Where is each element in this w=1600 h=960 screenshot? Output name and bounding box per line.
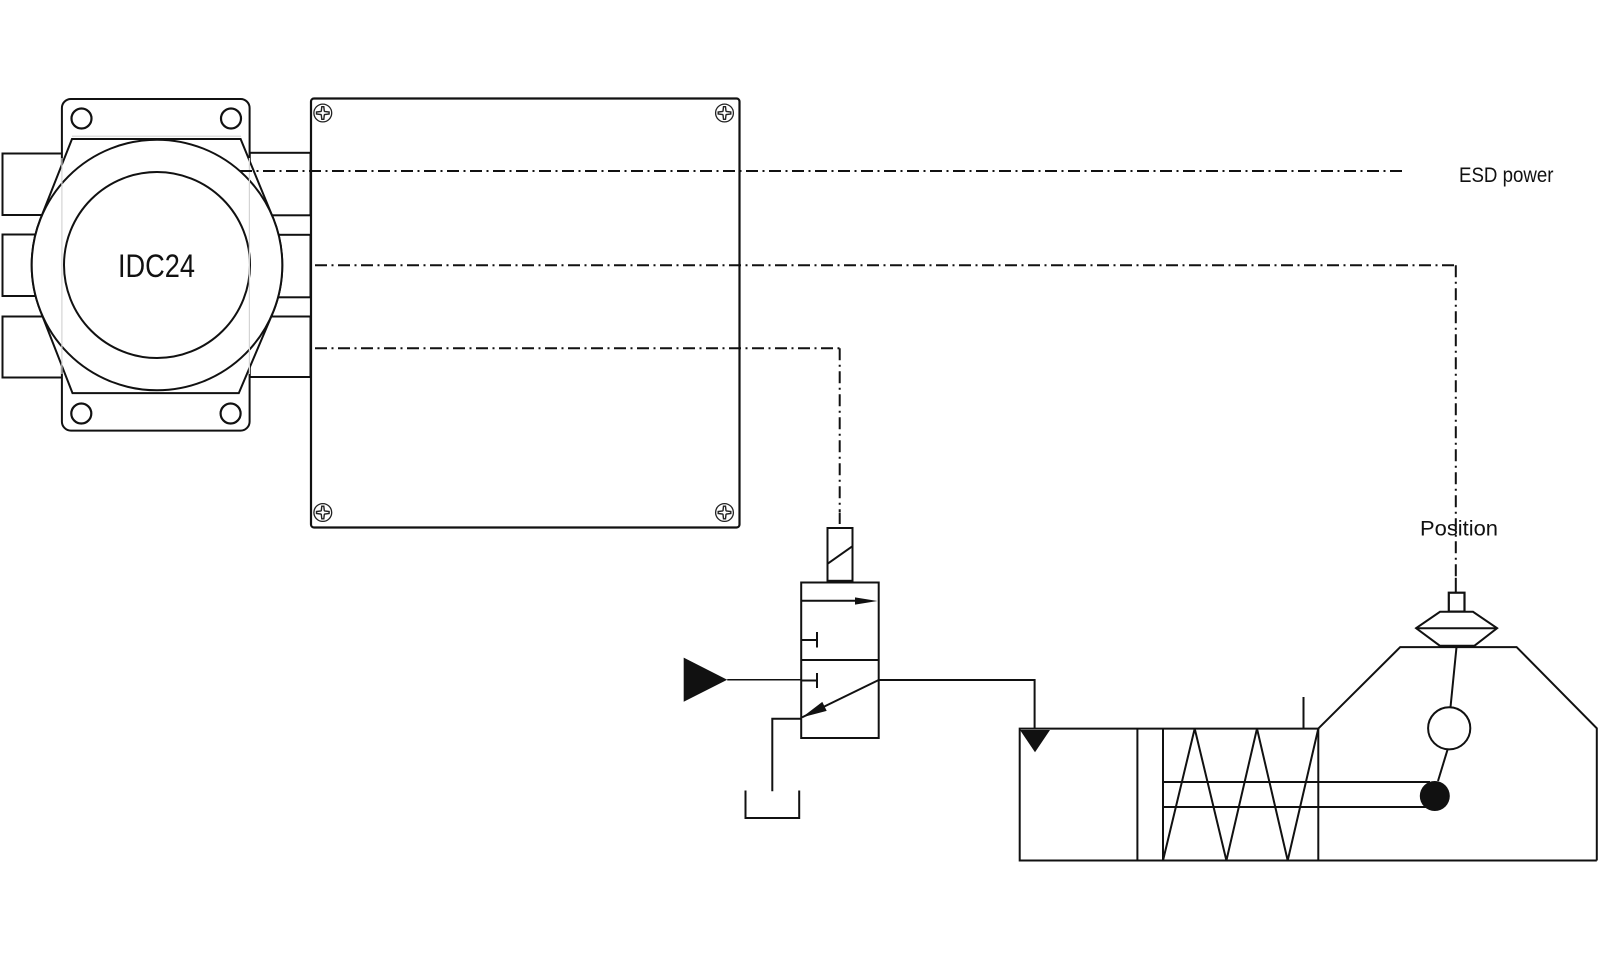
plate edge remnant top: [72, 135, 241, 137]
valve top cell blocked port T: [801, 632, 817, 648]
actuator right fin 3: [250, 317, 311, 378]
cylinder right wall: [1317, 729, 1319, 861]
valve top cell flow arrow: [801, 597, 877, 604]
screw top-left: [314, 104, 332, 122]
exhaust line: [772, 719, 802, 792]
actuator housing hill: [1318, 647, 1597, 860]
supply line: [727, 679, 801, 681]
solenoid coil: [828, 528, 853, 581]
plate bolt hole top-right: [221, 109, 241, 129]
linkage lower arm: [1438, 749, 1448, 781]
piston rod: [1163, 782, 1430, 807]
screw bottom-right: [716, 504, 734, 522]
position transmitter stem wire: [1455, 578, 1457, 593]
solenoid signal wire vertical: [839, 348, 841, 512]
plate edge remnant right: [248, 158, 250, 374]
valve body: [801, 583, 879, 739]
screw top-right: [716, 104, 734, 122]
actuator octagonal body: [32, 139, 283, 393]
solenoid wire solid stub: [839, 513, 841, 525]
label IDC24: [118, 248, 195, 284]
solenoid coil diagonal: [828, 546, 853, 564]
position transmitter body hexagon: [1416, 612, 1497, 646]
cylinder port nub: [1303, 697, 1305, 729]
actuator mounting plate: [62, 99, 250, 431]
valve bottom cell blocked port T: [801, 673, 817, 688]
exhaust drain cup: [746, 791, 800, 819]
svg-text:Position: Position: [1420, 517, 1498, 541]
ESD power signal wire: [240, 170, 1406, 172]
valve output line: [879, 680, 1035, 729]
actuator right fin 2: [250, 235, 311, 297]
rod end ball joint: [1420, 781, 1450, 811]
output arrow into cylinder: [1020, 730, 1050, 752]
actuator inner circle: [64, 172, 250, 358]
position signal wire horizontal: [315, 264, 1456, 266]
label ESD power: [1459, 163, 1554, 187]
position signal wire vertical: [1455, 265, 1457, 578]
svg-text:IDC24: IDC24: [118, 248, 195, 284]
junction box: [311, 99, 740, 528]
position transmitter neck: [1449, 593, 1465, 612]
plate bolt hole bottom-left: [71, 404, 91, 424]
solenoid signal wire horizontal: [315, 347, 840, 349]
screw bottom-left: [314, 504, 332, 522]
cylinder outline: [1020, 729, 1597, 861]
return spring: [1163, 729, 1318, 861]
actuator left fin 1: [3, 154, 63, 216]
actuator outer circle: [32, 140, 283, 391]
valve body divider: [801, 659, 879, 661]
plate bolt hole top-left: [72, 109, 92, 129]
plate bolt hole bottom-right: [221, 404, 241, 424]
actuator right fin 1: [250, 153, 311, 216]
linkage pivot circle: [1428, 707, 1470, 749]
piston plate: [1137, 729, 1163, 861]
plate edge remnant left: [61, 158, 63, 374]
supply pressure triangle: [684, 658, 728, 702]
label Position: [1420, 517, 1498, 541]
linkage upper arm: [1451, 647, 1457, 707]
position transmitter midline: [1416, 627, 1497, 629]
actuator left fin 3: [3, 317, 63, 378]
svg-text:ESD power: ESD power: [1459, 163, 1554, 187]
valve bottom cell diagonal flow path: [802, 680, 879, 717]
actuator left fin 2: [3, 235, 63, 297]
